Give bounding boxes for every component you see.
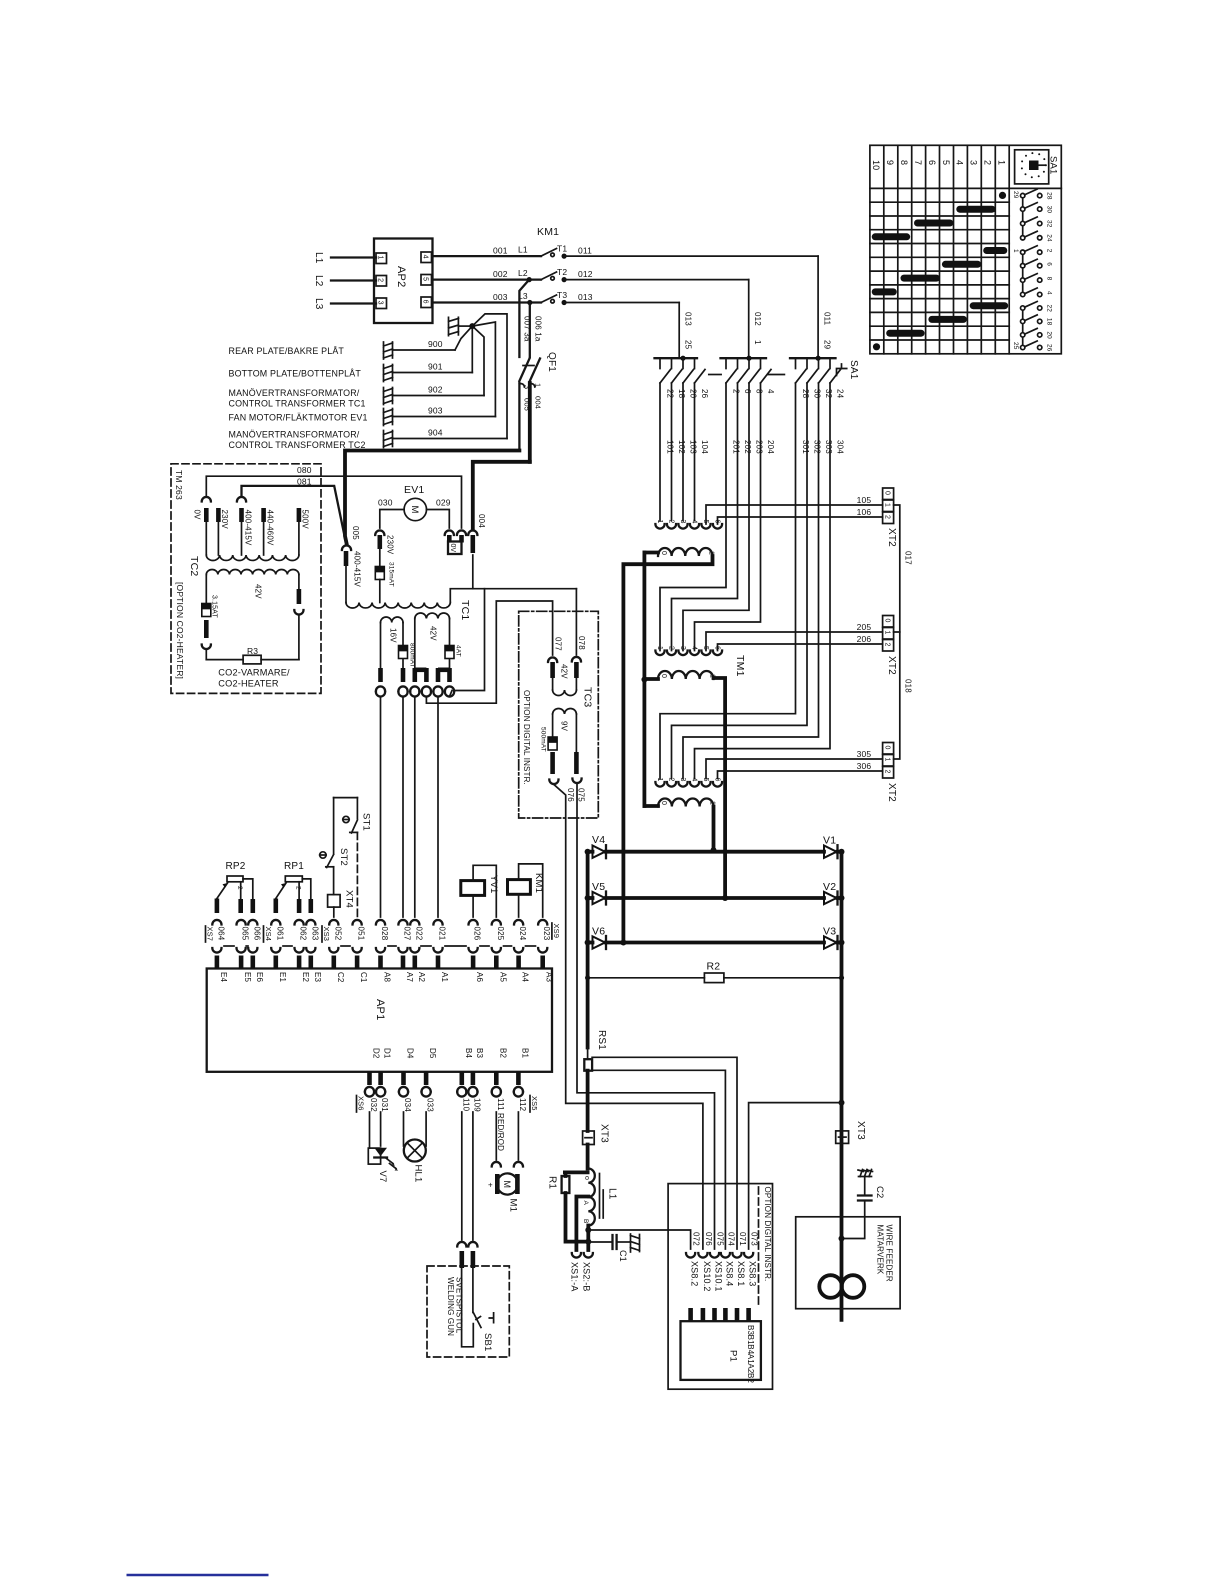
svg-text:072: 072 — [692, 1232, 701, 1246]
wire feeder motor — [819, 1275, 842, 1298]
thermal switch ST1 — [333, 798, 335, 854]
svg-text:3: 3 — [679, 778, 686, 782]
TC3 pad 078 — [572, 657, 581, 662]
TM1 secondary 0-bus — [644, 551, 658, 555]
svg-text:6: 6 — [743, 389, 752, 394]
svg-text:4: 4 — [422, 255, 429, 259]
switch SA1 group2 bus — [721, 357, 767, 359]
svg-text:25: 25 — [1012, 342, 1019, 350]
svg-text:017: 017 — [904, 551, 913, 565]
wire 029 — [427, 510, 450, 529]
svg-text:001: 001 — [493, 246, 508, 256]
left DC bus — [586, 852, 590, 1048]
wire 080 — [202, 497, 211, 502]
svg-text:D4: D4 — [406, 1048, 415, 1059]
svg-text:902: 902 — [428, 385, 443, 395]
svg-text:XS8.3: XS8.3 — [748, 1261, 758, 1286]
inductor L1 — [586, 1145, 590, 1169]
svg-text:500mAT: 500mAT — [540, 727, 547, 752]
svg-text:E5: E5 — [243, 972, 252, 982]
svg-text:1: 1 — [883, 503, 890, 507]
svg-text:034: 034 — [403, 1098, 412, 1112]
svg-text:A2: A2 — [417, 972, 426, 982]
node L1 B — [586, 1226, 590, 1251]
svg-text:6: 6 — [714, 778, 721, 782]
wire 002 L2 to KM1 — [433, 278, 542, 280]
svg-text:2: 2 — [668, 778, 675, 782]
svg-text:29: 29 — [1012, 191, 1019, 199]
contact KM1 T2 — [541, 272, 557, 280]
svg-text:030: 030 — [378, 498, 393, 508]
svg-text:066: 066 — [252, 927, 261, 941]
wires 201-204 — [660, 383, 726, 651]
ground at C1 — [631, 1234, 640, 1252]
option box TM 263 / CO2 heater — [171, 464, 321, 694]
svg-text:V7: V7 — [377, 1171, 388, 1183]
svg-text:064: 064 — [216, 927, 225, 941]
ground star node — [469, 323, 475, 329]
svg-text:440-460V: 440-460V — [265, 510, 274, 546]
svg-text:1: 1 — [709, 801, 716, 805]
svg-text:30: 30 — [813, 389, 822, 399]
wire 017 — [894, 505, 900, 632]
TC1 42V right bridge pins — [436, 668, 441, 682]
svg-text:XS3: XS3 — [322, 927, 331, 942]
svg-text:R3: R3 — [247, 646, 258, 656]
wire 205 — [706, 632, 883, 651]
svg-text:303: 303 — [824, 440, 833, 454]
TM1 secondary 2 winding — [658, 671, 714, 679]
svg-text:MATARVERK: MATARVERK — [876, 1225, 885, 1275]
svg-text:CONTROL TRANSFORMER TC1: CONTROL TRANSFORMER TC1 — [229, 399, 366, 409]
svg-text:002: 002 — [493, 269, 508, 279]
svg-text:A6: A6 — [475, 972, 484, 982]
TC1 secondary 42V winding — [415, 613, 450, 619]
SA1 group1 contacts — [660, 358, 705, 383]
TM1 primary 3 pads — [655, 778, 722, 787]
svg-text:L1: L1 — [518, 245, 528, 255]
wire 206 — [718, 644, 883, 651]
bus row V6-V3 — [588, 941, 593, 945]
svg-text:ST1: ST1 — [361, 813, 372, 831]
svg-text:2: 2 — [883, 770, 890, 774]
welding gun box SB1 — [427, 1266, 509, 1357]
svg-text:5: 5 — [422, 277, 429, 281]
svg-text:0: 0 — [660, 801, 667, 805]
svg-text:E3: E3 — [313, 972, 322, 982]
svg-text:022: 022 — [414, 927, 423, 941]
svg-text:0V: 0V — [449, 544, 456, 553]
svg-text:T1: T1 — [557, 244, 567, 254]
svg-text:RP2: RP2 — [226, 861, 246, 872]
junction L3 to QF1 — [527, 300, 532, 305]
SA1 rotary symbol — [1015, 150, 1049, 184]
svg-text:42V: 42V — [429, 626, 438, 641]
svg-text:074: 074 — [726, 1232, 735, 1246]
svg-text:2: 2 — [883, 643, 890, 647]
svg-text:L1: L1 — [313, 252, 324, 264]
wire 073 from plus bus — [839, 1100, 845, 1106]
svg-text:QF1: QF1 — [546, 352, 557, 372]
terminal XT2 block 3 — [883, 743, 894, 755]
svg-text:XS9: XS9 — [552, 924, 561, 939]
svg-text:2: 2 — [1046, 249, 1053, 253]
svg-text:FAN MOTOR/FLÄKTMOTOR EV1: FAN MOTOR/FLÄKTMOTOR EV1 — [229, 413, 368, 423]
svg-text:4: 4 — [691, 778, 698, 782]
svg-text:033: 033 — [426, 1098, 435, 1112]
TC3 9V right leg — [575, 714, 577, 752]
svg-text:42V: 42V — [254, 584, 263, 599]
svg-text:903: 903 — [428, 406, 443, 416]
svg-text:XS8.2: XS8.2 — [690, 1261, 700, 1286]
solenoid valve YV1 — [461, 881, 485, 896]
svg-text:065: 065 — [241, 927, 250, 941]
svg-text:301: 301 — [801, 440, 810, 454]
wire 028 TC1 to AP1 A8 — [376, 692, 385, 697]
TC3 primary winding 42V — [550, 662, 555, 678]
footer rule — [127, 1574, 269, 1576]
svg-text:080: 080 — [297, 465, 312, 475]
SA1 contact diagram strip — [1021, 189, 1042, 350]
TC3 pad 077 — [548, 657, 557, 662]
SA1 group2 contacts — [726, 358, 771, 383]
svg-text:C2: C2 — [874, 1186, 885, 1199]
svg-text:25: 25 — [684, 340, 693, 350]
svg-text:400-415V: 400-415V — [243, 510, 252, 546]
interference suppressor AP2 — [374, 239, 433, 324]
svg-text:076: 076 — [704, 1232, 713, 1246]
connector link dashes — [224, 945, 234, 947]
terminal XT4 — [328, 895, 341, 908]
svg-text:011: 011 — [578, 246, 592, 256]
svg-text:24: 24 — [836, 389, 845, 399]
svg-text:E4: E4 — [219, 972, 228, 982]
svg-text:3: 3 — [969, 160, 979, 165]
svg-text:REAR PLATE/BAKRE PLÅT: REAR PLATE/BAKRE PLÅT — [229, 346, 345, 356]
svg-text:OPTION DIGITAL INSTR.: OPTION DIGITAL INSTR. — [522, 690, 531, 785]
wire secondary1 hot to V6 row — [623, 556, 712, 943]
svg-text:M: M — [502, 1181, 512, 1189]
svg-text:2: 2 — [668, 646, 675, 650]
svg-text:1: 1 — [883, 631, 890, 635]
svg-text:109: 109 — [472, 1098, 481, 1112]
svg-text:0: 0 — [883, 491, 890, 495]
svg-text:26: 26 — [1046, 344, 1053, 352]
svg-text:004: 004 — [534, 396, 543, 409]
svg-text:B2: B2 — [498, 1048, 507, 1058]
TM1 primary 2 pads — [655, 646, 722, 655]
wire feeder box — [796, 1217, 900, 1309]
svg-text:5: 5 — [941, 160, 951, 165]
svg-text:o: o — [583, 1176, 590, 1180]
wire 005 bold run to TC1 primary — [345, 451, 519, 544]
svg-text:2: 2 — [983, 160, 993, 165]
wire 018 — [894, 632, 900, 759]
svg-text:XT3: XT3 — [855, 1121, 866, 1140]
svg-text:302: 302 — [813, 440, 822, 454]
svg-text:7: 7 — [913, 160, 923, 165]
wire TC1 0V right leg — [472, 555, 474, 589]
wire 075 — [577, 784, 715, 1250]
SA1 table position marks — [875, 209, 1005, 333]
SA1 group3 contacts — [796, 358, 841, 383]
svg-text:MANÖVERTRANSFORMATOR/: MANÖVERTRANSFORMATOR/ — [229, 430, 360, 440]
svg-text:KM1: KM1 — [537, 226, 559, 238]
svg-text:005: 005 — [523, 398, 532, 411]
svg-text:20: 20 — [1046, 331, 1053, 339]
svg-text:315mAT: 315mAT — [388, 562, 395, 587]
wire 077 TC1 to TC3 — [422, 692, 431, 697]
svg-text:012: 012 — [753, 312, 762, 326]
TC1 400-415V pad 005 — [342, 545, 351, 550]
svg-text:28: 28 — [1046, 192, 1053, 200]
svg-text:8: 8 — [755, 389, 764, 394]
svg-text:1: 1 — [996, 160, 1006, 165]
TM1 primary 1 pads — [655, 520, 722, 529]
svg-text:006 1a: 006 1a — [534, 316, 543, 342]
svg-text:B2: B2 — [746, 1373, 755, 1383]
svg-text:6: 6 — [714, 520, 721, 524]
svg-text:D2: D2 — [372, 1048, 381, 1059]
svg-text:4: 4 — [766, 389, 775, 394]
SA1 operator symbol — [837, 364, 847, 376]
svg-text:18: 18 — [1046, 318, 1053, 326]
svg-text:ST2: ST2 — [338, 848, 349, 866]
svg-text:400-415V: 400-415V — [353, 551, 362, 587]
svg-text:TC2: TC2 — [188, 556, 200, 576]
svg-text:2: 2 — [294, 886, 301, 890]
svg-text:6: 6 — [422, 300, 429, 304]
svg-text:T3: T3 — [557, 290, 567, 300]
wire 024 KM1 coil — [518, 894, 520, 917]
wire 071 RS1 to XS8.1 — [592, 1057, 737, 1249]
svg-text:P1: P1 — [728, 1350, 739, 1362]
svg-text:RS1: RS1 — [596, 1030, 607, 1050]
svg-text:900: 900 — [428, 339, 443, 349]
wire 051 dashed — [356, 832, 358, 917]
wire 030 — [380, 510, 404, 529]
svg-text:9V: 9V — [560, 721, 569, 732]
svg-text:305: 305 — [857, 749, 872, 759]
svg-text:5: 5 — [702, 520, 709, 524]
wire 105 — [706, 505, 883, 524]
svg-text:A5: A5 — [498, 972, 507, 982]
svg-text:18: 18 — [677, 389, 686, 399]
svg-text:3.15AT: 3.15AT — [211, 595, 218, 618]
svg-text:CO2-VARMARE/: CO2-VARMARE/ — [218, 668, 290, 678]
svg-text:32: 32 — [1046, 220, 1053, 228]
svg-text:22: 22 — [666, 389, 675, 399]
TC1 42V fuse 4AT — [449, 619, 451, 646]
wire 027 TC1 to AP1 A7 — [398, 692, 407, 697]
svg-text:XS4: XS4 — [264, 927, 273, 942]
option box digital instr bottom — [668, 1184, 772, 1390]
svg-text:WIRE FEEDER: WIRE FEEDER — [885, 1225, 894, 1282]
svg-text:206: 206 — [857, 634, 872, 644]
svg-text:029: 029 — [436, 498, 451, 508]
TM1 secondary 1 winding — [658, 548, 713, 556]
wire secondary3 hot to V4 row — [712, 807, 716, 851]
svg-text:2: 2 — [668, 520, 675, 524]
svg-text:V4: V4 — [592, 834, 605, 846]
svg-text:[OPTION CO2-HEATER]: [OPTION CO2-HEATER] — [175, 582, 185, 679]
capacitor C2 with ground — [858, 1170, 873, 1177]
svg-text:071: 071 — [738, 1232, 747, 1246]
motor M1 — [495, 1112, 497, 1160]
wire secondary2 hot to V5 row — [714, 678, 726, 898]
svg-text:106: 106 — [857, 507, 872, 517]
connector pads XS8/XS10 — [686, 1253, 695, 1258]
svg-text:2: 2 — [377, 278, 384, 282]
switch SA1 group3 bus — [790, 357, 836, 359]
svg-text:2: 2 — [732, 389, 741, 394]
svg-text:TC3: TC3 — [582, 687, 594, 707]
svg-text:MANÖVERTRANSFORMATOR/: MANÖVERTRANSFORMATOR/ — [229, 388, 360, 398]
svg-text:16V: 16V — [389, 628, 398, 643]
svg-text:0: 0 — [660, 551, 667, 555]
svg-text:5: 5 — [702, 646, 709, 650]
svg-text:8: 8 — [1046, 277, 1053, 281]
bus row V4-V1 — [588, 850, 593, 854]
wire 021 TC1 to AP1 A1 — [433, 692, 442, 697]
svg-text:1: 1 — [753, 340, 762, 345]
capacitor C1 — [588, 1241, 612, 1243]
wire 106 — [718, 517, 883, 524]
svg-text:L2: L2 — [518, 268, 528, 278]
svg-text:3: 3 — [679, 646, 686, 650]
svg-text:B1: B1 — [520, 1048, 529, 1058]
wires 101-104 — [659, 383, 661, 521]
terminal XT3 left — [583, 1131, 595, 1145]
wire 022 TC1 to AP1 A2 — [410, 692, 419, 697]
contact KM1 T1 — [541, 249, 557, 257]
svg-text:0V: 0V — [193, 510, 202, 521]
svg-text:2: 2 — [883, 515, 890, 519]
svg-text:XT2: XT2 — [886, 528, 897, 547]
TC3 9V left leg fuse 500mAT — [552, 714, 554, 737]
svg-text:EV1: EV1 — [404, 484, 424, 496]
svg-text:CONTROL TRANSFORMER TC2: CONTROL TRANSFORMER TC2 — [229, 440, 366, 450]
svg-text:1: 1 — [1012, 249, 1019, 253]
svg-text:M: M — [409, 506, 420, 514]
svg-text:230V: 230V — [220, 510, 229, 530]
svg-text:230V: 230V — [386, 535, 395, 555]
svg-text:2: 2 — [236, 886, 243, 890]
svg-text:021: 021 — [438, 927, 447, 941]
svg-text:V1: V1 — [823, 835, 836, 847]
svg-text:XS1:-A: XS1:-A — [570, 1262, 580, 1292]
svg-text:SA1: SA1 — [848, 360, 859, 380]
svg-text:4: 4 — [691, 646, 698, 650]
svg-text:1: 1 — [656, 520, 663, 524]
terminal XT2 block 2 — [883, 616, 894, 628]
svg-text:102: 102 — [677, 440, 686, 454]
TM1 secondary 3 winding — [658, 799, 714, 807]
svg-text:AP1: AP1 — [374, 999, 386, 1020]
svg-text:D1: D1 — [383, 1048, 392, 1059]
svg-text:1: 1 — [883, 758, 890, 762]
svg-text:203: 203 — [755, 440, 764, 454]
svg-text:XT4: XT4 — [344, 890, 355, 908]
svg-text:29: 29 — [823, 340, 832, 350]
svg-text:013: 013 — [684, 312, 693, 326]
wire 013 — [564, 302, 679, 304]
svg-text:081: 081 — [297, 477, 312, 487]
svg-text:028: 028 — [380, 927, 389, 941]
svg-text:105: 105 — [857, 495, 872, 505]
lamp HL1 — [403, 1112, 405, 1146]
AP1 top pins — [212, 920, 553, 983]
svg-text:004: 004 — [477, 514, 486, 528]
svg-text:4: 4 — [1046, 291, 1053, 295]
svg-text:202: 202 — [743, 440, 752, 454]
svg-text:032: 032 — [369, 1098, 378, 1112]
switch SB1 — [472, 1268, 474, 1313]
svg-text:076: 076 — [566, 788, 575, 802]
TC1 secondary 16V winding — [381, 617, 404, 623]
svg-text:E6: E6 — [255, 972, 264, 982]
svg-text:1: 1 — [377, 256, 384, 260]
svg-text:061: 061 — [275, 927, 284, 941]
wire 006 1a — [529, 303, 531, 358]
svg-text:3: 3 — [523, 385, 532, 389]
circuit breaker QF1 — [519, 352, 557, 462]
svg-text:L3: L3 — [313, 298, 324, 310]
wires 110 109 to welding gun — [461, 1112, 463, 1240]
connector XS1:-A — [572, 1253, 581, 1258]
svg-text:28: 28 — [801, 389, 810, 399]
wire 025 YV1 — [473, 865, 496, 917]
svg-text:+: + — [488, 1181, 493, 1190]
svg-text:A: A — [582, 1201, 589, 1206]
svg-text:101: 101 — [666, 440, 675, 454]
connector XS2:-B — [584, 1253, 593, 1258]
svg-text:T2: T2 — [557, 267, 567, 277]
svg-text:6: 6 — [1046, 262, 1053, 266]
wire 011 — [564, 255, 818, 257]
svg-text:RP1: RP1 — [284, 861, 304, 872]
option box TC3 digital instr — [519, 611, 599, 818]
svg-text:TM1: TM1 — [734, 655, 746, 677]
wire 004 bold run to TC1 primary 0V — [473, 462, 530, 528]
svg-text:E1: E1 — [278, 972, 287, 982]
wire 003 L3 to KM1 — [433, 301, 542, 303]
svg-text:E2: E2 — [301, 972, 310, 982]
svg-text:10: 10 — [871, 160, 881, 170]
svg-text:CO2-HEATER: CO2-HEATER — [218, 679, 279, 689]
svg-text:R1: R1 — [547, 1176, 558, 1189]
svg-text:32: 32 — [824, 389, 833, 399]
svg-text:904: 904 — [428, 428, 443, 438]
svg-text:112: 112 — [518, 1098, 527, 1112]
svg-text:5: 5 — [702, 778, 709, 782]
svg-text:D5: D5 — [428, 1048, 437, 1059]
svg-text:0: 0 — [883, 619, 890, 623]
thermal switch ST2 — [320, 852, 326, 858]
svg-text:XS6: XS6 — [357, 1096, 366, 1111]
svg-text:110: 110 — [461, 1098, 470, 1112]
svg-text:HL1: HL1 — [413, 1165, 424, 1183]
wire 026 YV1 — [472, 895, 474, 917]
svg-text:500V: 500V — [301, 510, 310, 530]
wire 0V common to pad6 and TC3 078 — [473, 588, 577, 590]
svg-text:C1: C1 — [359, 972, 368, 983]
svg-text:SB1: SB1 — [482, 1333, 493, 1352]
svg-text:103: 103 — [689, 440, 698, 454]
wires 301-304 — [660, 383, 796, 779]
svg-text:20: 20 — [689, 389, 698, 399]
svg-text:075: 075 — [716, 1232, 725, 1246]
